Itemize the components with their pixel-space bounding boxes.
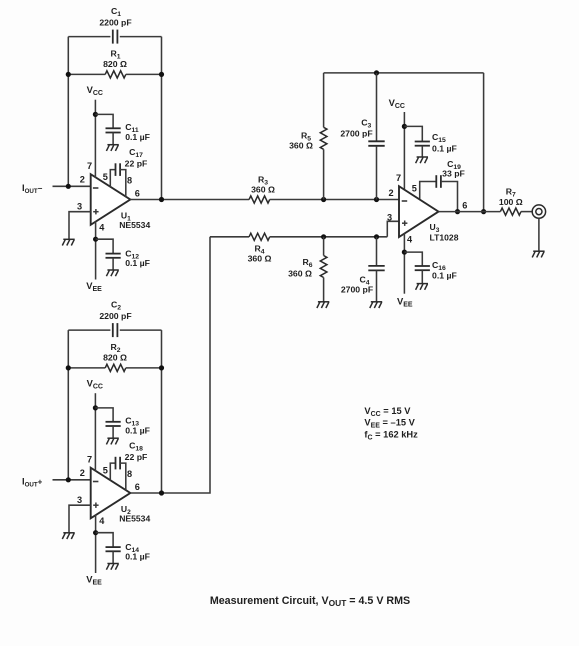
wire: [94, 100, 96, 178]
svg-text:0.1 µF: 0.1 µF: [125, 426, 150, 436]
junction: [66, 477, 71, 482]
svg-text:4: 4: [99, 516, 105, 526]
resistor R1: [68, 73, 105, 75]
capacitor C11: [95, 114, 113, 128]
capacitor C2: [68, 329, 110, 331]
wire: [130, 237, 210, 493]
wire: [53, 479, 91, 481]
junction: [93, 237, 98, 242]
svg-text:5: 5: [103, 172, 108, 182]
svg-text:22 pF: 22 pF: [125, 158, 148, 168]
capacitor C13: [95, 408, 113, 422]
capacitor C18: [110, 463, 115, 480]
svg-text:2700 pF: 2700 pF: [340, 129, 372, 139]
ground: [62, 239, 74, 245]
wire: [95, 515, 97, 573]
svg-text:2700 pF: 2700 pF: [341, 285, 373, 295]
capacitor C16: [404, 252, 422, 266]
svg-text:4: 4: [99, 222, 105, 232]
svg-text:6: 6: [462, 201, 467, 211]
svg-text:820 Ω: 820 Ω: [103, 353, 127, 363]
svg-text:820 Ω: 820 Ω: [103, 59, 127, 69]
capacitor C17: [110, 170, 115, 187]
junction: [374, 70, 379, 75]
svg-text:2: 2: [80, 175, 85, 185]
wire: [95, 221, 97, 279]
svg-text:8: 8: [127, 469, 132, 479]
junction: [159, 72, 164, 77]
capacitor C1: [68, 36, 110, 38]
junction: [374, 234, 379, 239]
resistor R2: [68, 367, 105, 369]
svg-text:7: 7: [87, 161, 92, 171]
ground: [532, 251, 544, 257]
wire: [324, 72, 484, 74]
svg-text:6: 6: [135, 482, 140, 492]
junction: [93, 405, 98, 410]
wire: [67, 37, 69, 187]
svg-text:2200 pF: 2200 pF: [99, 17, 131, 27]
ground: [370, 302, 382, 308]
capacitor C12: [96, 239, 114, 253]
svg-text:22 pF: 22 pF: [125, 452, 148, 462]
wire: [69, 505, 91, 532]
junction: [402, 124, 407, 129]
svg-text:360 Ω: 360 Ω: [288, 268, 312, 278]
svg-text:Measurement Circuit, VOUT = 4.: Measurement Circuit, VOUT = 4.5 V RMS: [210, 595, 410, 608]
ground: [62, 533, 74, 539]
wire: [53, 185, 91, 187]
wire: [161, 330, 163, 493]
wire: [67, 330, 69, 480]
capacitor C15: [404, 126, 422, 141]
ground: [106, 270, 118, 276]
svg-text:NE5534: NE5534: [119, 220, 150, 230]
ground: [317, 302, 329, 308]
junction: [66, 184, 71, 189]
svg-text:33 pF: 33 pF: [442, 168, 465, 178]
op-amp U2: [91, 468, 131, 519]
svg-text:0.1 µF: 0.1 µF: [125, 552, 150, 562]
svg-text:3: 3: [77, 495, 82, 505]
junction: [481, 209, 486, 214]
resistor R6: [323, 237, 325, 256]
svg-text:360 Ω: 360 Ω: [251, 184, 275, 194]
junction: [159, 490, 164, 495]
junction: [66, 365, 71, 370]
junction: [159, 197, 164, 202]
junction: [455, 209, 460, 214]
svg-text:3: 3: [387, 213, 392, 223]
resistor R5: [323, 73, 325, 127]
svg-text:360 Ω: 360 Ω: [248, 254, 272, 264]
capacitor C4: [376, 237, 378, 266]
svg-text:5: 5: [412, 184, 417, 194]
svg-text:2: 2: [80, 468, 85, 478]
resistor R7: [439, 211, 501, 213]
resistor R4: [210, 236, 249, 238]
wire: [403, 112, 405, 190]
junction: [66, 72, 71, 77]
svg-text:NE5534: NE5534: [119, 514, 150, 524]
junction: [321, 234, 326, 239]
svg-text:8: 8: [127, 176, 132, 186]
capacitor C3: [376, 73, 378, 141]
junction: [374, 197, 379, 202]
svg-text:0.1 µF: 0.1 µF: [125, 132, 150, 142]
svg-text:LT1028: LT1028: [430, 233, 459, 243]
svg-text:6: 6: [135, 189, 140, 199]
svg-text:4: 4: [407, 235, 413, 245]
wire: [161, 37, 163, 200]
ground: [106, 145, 118, 151]
svg-text:0.1 µF: 0.1 µF: [432, 271, 457, 281]
svg-text:7: 7: [396, 173, 401, 183]
connector J1 output: [532, 205, 545, 218]
junction: [93, 530, 98, 535]
ground: [416, 157, 428, 163]
svg-text:3: 3: [77, 201, 82, 211]
svg-text:7: 7: [87, 455, 92, 465]
wire: [403, 233, 405, 294]
junction: [159, 365, 164, 370]
wire: [483, 73, 485, 212]
op-amp U3: [399, 186, 439, 237]
resistor R3: [130, 199, 249, 201]
junction: [93, 112, 98, 117]
svg-text:2: 2: [388, 188, 393, 198]
svg-text:360 Ω: 360 Ω: [289, 140, 313, 150]
wire: [538, 218, 540, 251]
svg-text:5: 5: [103, 465, 108, 475]
op-amp U1: [91, 174, 131, 225]
wire: [387, 221, 399, 237]
capacitor C19: [420, 182, 437, 201]
svg-text:0.1 µF: 0.1 µF: [125, 258, 150, 268]
wire: [94, 393, 96, 471]
ground: [106, 564, 118, 570]
svg-text:0.1 µF: 0.1 µF: [432, 143, 457, 153]
junction: [402, 250, 407, 255]
svg-text:100 Ω: 100 Ω: [499, 197, 523, 207]
wire: [69, 212, 91, 239]
ground: [416, 284, 428, 290]
capacitor C14: [96, 533, 114, 547]
ground: [106, 438, 118, 444]
svg-text:2200 pF: 2200 pF: [99, 311, 131, 321]
junction: [321, 197, 326, 202]
